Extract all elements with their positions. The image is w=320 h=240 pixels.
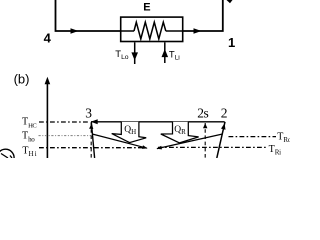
wire out of zigzag bbox=[166, 30, 183, 32]
svg-text:1: 1 bbox=[228, 35, 235, 50]
svg-text:2s: 2s bbox=[197, 105, 208, 120]
svg-text:4: 4 bbox=[44, 31, 52, 46]
wire arrow after E bbox=[194, 28, 202, 34]
svg-text:(b): (b) bbox=[14, 72, 30, 87]
arrow up at 2 bbox=[221, 123, 226, 129]
dashed guide below 2s bbox=[204, 123, 206, 158]
T_HC dash-dot line bbox=[39, 121, 88, 123]
T_Ro dash-dot line bbox=[229, 136, 277, 138]
arrow end of line C bbox=[142, 145, 148, 149]
T_Hi dash-dot line bbox=[39, 147, 144, 149]
T_Ri dash-dot line bbox=[158, 146, 267, 148]
wire arrow into E bbox=[71, 28, 79, 34]
wire box to right corner bbox=[183, 0, 223, 31]
resistor zigzag bbox=[134, 22, 166, 39]
T axis bbox=[46, 83, 48, 159]
svg-text:3: 3 bbox=[85, 105, 92, 120]
arrow into 3 bbox=[91, 119, 98, 124]
expansion line from 3 down bbox=[91, 122, 94, 158]
svg-text:TH i: TH i bbox=[22, 145, 36, 158]
QR block arrow bbox=[161, 122, 199, 143]
svg-text:TRo: TRo bbox=[277, 132, 290, 145]
dashed guide below 3 bbox=[90, 123, 92, 158]
arrowhead fragment top right bbox=[227, 0, 233, 3]
pump symbol cut off bottom left bbox=[0, 149, 14, 166]
svg-text:TLo: TLo bbox=[115, 49, 128, 61]
svg-text:TLi: TLi bbox=[169, 49, 180, 61]
T_Lo out arrow bbox=[134, 42, 136, 64]
heat exchanger E box bbox=[121, 17, 183, 41]
wire through box bbox=[121, 30, 134, 32]
T_Li in arrow bbox=[164, 42, 166, 63]
arrow end of line D bbox=[156, 146, 162, 150]
sink line D under QR bbox=[157, 134, 223, 149]
wire left vertical bbox=[56, 0, 121, 31]
arrow up at 3 bbox=[89, 123, 93, 129]
QH block arrow bbox=[112, 122, 147, 143]
process line 3-2 bbox=[91, 121, 225, 123]
svg-text:2: 2 bbox=[221, 105, 228, 120]
T_ho dotted line bbox=[39, 135, 92, 137]
axis arrowhead bbox=[45, 77, 51, 84]
svg-text:TRi: TRi bbox=[269, 144, 281, 157]
svg-text:THC: THC bbox=[22, 117, 37, 130]
sink line C to THi bbox=[92, 134, 147, 148]
svg-text:Tho: Tho bbox=[22, 131, 35, 144]
compression line 1-2 bbox=[217, 122, 225, 158]
svg-text:E: E bbox=[143, 2, 150, 14]
arrow up at 2s bbox=[203, 123, 207, 128]
